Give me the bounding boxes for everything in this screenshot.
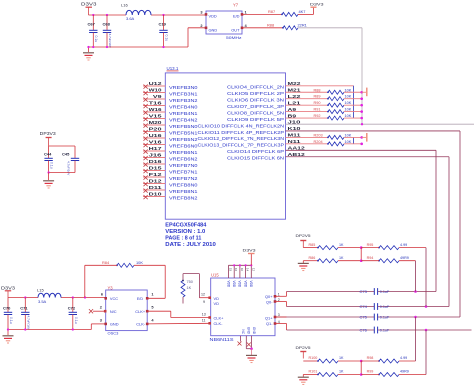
junction dot row M11 <box>360 136 363 139</box>
junction top rail C71 <box>24 296 26 298</box>
power symbol D3V3 top left <box>86 6 93 8</box>
capacitor C68 <box>106 15 108 30</box>
svg-text:AA12: AA12 <box>288 146 306 151</box>
FPGA U13.1 body <box>165 73 285 219</box>
U13 left pin D12 VREFB8N0 <box>143 183 165 185</box>
wire K10 row to C75 <box>286 130 461 132</box>
capacitor C76 0.1uF <box>373 327 375 334</box>
svg-text:Y3: Y3 <box>108 285 114 290</box>
U13 left pin D16 VREFB7N0 <box>143 163 165 165</box>
svg-text:VREFB7N2: VREFB7N2 <box>169 176 198 182</box>
junction bias A lower <box>360 360 363 363</box>
junction bias B lower <box>360 373 363 376</box>
svg-text:A9: A9 <box>288 107 297 112</box>
svg-text:1K: 1K <box>339 256 344 260</box>
U13 left pin D11 VREFB8N1 <box>143 189 165 191</box>
svg-text:GND: GND <box>252 327 256 335</box>
feedback resistor R84 10K <box>147 297 165 299</box>
svg-text:R85: R85 <box>309 243 316 247</box>
resistor R75 750 (vertical pullup) <box>183 273 199 275</box>
svg-text:B9: B9 <box>288 113 297 118</box>
bias row A lower <box>303 360 318 362</box>
inductor L15 <box>38 293 61 297</box>
power bracket group2 <box>362 136 366 138</box>
svg-text:12: 12 <box>201 293 205 297</box>
svg-text:0.1uF: 0.1uF <box>380 316 390 320</box>
svg-text:12: 12 <box>251 268 255 272</box>
U13 left pin M20 VREFB5N0 <box>143 124 165 126</box>
svg-text:3: 3 <box>278 313 280 317</box>
svg-text:VREFB4N1: VREFB4N1 <box>169 111 198 117</box>
wire bias B lower to C76 <box>425 330 427 375</box>
U15 left pin CLK+ <box>208 316 211 319</box>
wire DP3V3 caps bottom <box>49 172 75 174</box>
svg-text:10K: 10K <box>345 133 352 137</box>
svg-text:CLKIO12_DIFFCLK_7N_REFCLK3N: CLKIO12_DIFFCLK_7N_REFCLK3N <box>198 136 285 141</box>
capacitor C45 <box>74 146 76 158</box>
ground top-left <box>88 47 90 52</box>
svg-text:VREFB6N1: VREFB6N1 <box>169 150 198 156</box>
U15 bottom pins <box>240 336 242 342</box>
wire J10 row 50MHz (gray) <box>286 123 474 125</box>
resistor R90 10K on row L21 <box>286 104 329 106</box>
svg-text:D10: D10 <box>149 192 163 197</box>
junction C75 bias tap <box>414 316 417 319</box>
svg-text:CLKIO4_DIFFCLK_2N: CLKIO4_DIFFCLK_2N <box>227 85 284 90</box>
junction U15 gnd <box>250 347 253 350</box>
svg-text:Y7: Y7 <box>233 2 239 7</box>
svg-text:0.1u: 0.1u <box>50 162 54 169</box>
bias bus lower <box>360 361 362 375</box>
svg-text:AB12: AB12 <box>288 152 306 157</box>
svg-text:VDD: VDD <box>243 281 247 288</box>
capacitor C74 0.1uF <box>373 303 375 310</box>
svg-text:D3V3: D3V3 <box>1 286 16 291</box>
svg-text:Q0-: Q0- <box>266 300 273 305</box>
junction bottom rail C71 <box>24 328 26 330</box>
svg-text:1K: 1K <box>339 370 344 374</box>
junction bias B upper <box>360 259 363 262</box>
svg-text:CLKIO14 DIFFCLK 6P: CLKIO14 DIFFCLK 6P <box>227 149 284 154</box>
svg-text:CLKIO8_DIFFCLK_5N: CLKIO8_DIFFCLK_5N <box>227 110 284 115</box>
svg-text:VDD: VDD <box>232 281 236 288</box>
svg-text:VDD: VDD <box>249 281 253 288</box>
wire bias A upper to C74 <box>425 248 427 307</box>
U13 left pin V9 VREFB3N2 <box>143 98 165 100</box>
U13 left pin U16 VREFB5N2 <box>143 137 165 139</box>
svg-text:1K: 1K <box>187 286 192 290</box>
svg-text:3.5A: 3.5A <box>38 299 47 304</box>
wire Y7 pin4 to R88 <box>242 27 283 29</box>
svg-text:10K: 10K <box>345 140 352 144</box>
svg-text:VD: VD <box>214 301 220 306</box>
svg-text:R88: R88 <box>267 23 274 28</box>
svg-text:4.99: 4.99 <box>400 243 407 247</box>
svg-text:R101: R101 <box>309 370 318 374</box>
svg-text:VREFB7N1: VREFB7N1 <box>169 170 198 176</box>
wire Y3 CLK- to U15 <box>147 322 211 325</box>
bias row B lower <box>303 374 318 376</box>
U13 left pin F12 VREFB7N2 <box>143 176 165 178</box>
capacitor C71 <box>24 298 26 313</box>
svg-text:D3V3: D3V3 <box>310 1 325 6</box>
svg-text:49R9: 49R9 <box>400 370 409 374</box>
svg-text:D15: D15 <box>149 166 163 171</box>
svg-text:R203: R203 <box>314 133 323 137</box>
svg-text:OSC3: OSC3 <box>108 331 120 336</box>
svg-text:VREFB5N1: VREFB5N1 <box>169 131 198 137</box>
svg-text:CLKIO5 DIFFCLK 2P: CLKIO5 DIFFCLK 2P <box>227 91 284 96</box>
U13 left pin V15 VREFB4N2 <box>143 118 165 120</box>
svg-text:R91: R91 <box>314 108 321 112</box>
svg-text:10K: 10K <box>345 101 352 105</box>
svg-text:3.6A: 3.6A <box>126 16 135 21</box>
svg-text:C70: C70 <box>3 306 11 311</box>
clock buffer U15 <box>211 278 275 336</box>
svg-text:M11: M11 <box>288 133 302 138</box>
capacitor C67 <box>92 15 94 30</box>
svg-text:DATE : JULY 2010: DATE : JULY 2010 <box>165 242 216 248</box>
svg-text:U13.1: U13.1 <box>167 66 179 71</box>
svg-text:J16: J16 <box>149 153 163 158</box>
junction dot row L21 <box>360 104 363 107</box>
wire DP3V3 caps top <box>49 145 75 147</box>
svg-text:C71: C71 <box>20 306 28 311</box>
junction top rail C72 <box>72 296 74 298</box>
svg-text:VREFB8N0: VREFB8N0 <box>169 183 198 189</box>
U13 left pin V16 VREFB6N0 <box>143 144 165 146</box>
svg-text:P20: P20 <box>149 127 163 132</box>
svg-text:10K: 10K <box>345 108 352 112</box>
resistor R203 10K on row M11 <box>286 136 329 138</box>
svg-text:11: 11 <box>202 318 206 322</box>
power symbol D3V3 bottom left <box>5 290 11 292</box>
svg-text:VREFB7N0: VREFB7N0 <box>169 163 198 169</box>
U13 left pin W10 VREFB3N1 <box>143 92 165 94</box>
svg-text:DP2V5: DP2V5 <box>296 233 312 238</box>
svg-text:CLK+: CLK+ <box>214 315 225 320</box>
junction top rail at C19 <box>162 14 164 16</box>
junction feedback riser <box>84 296 86 298</box>
svg-text:4.7uF/16V: 4.7uF/16V <box>108 34 112 49</box>
wire row C76 <box>287 329 375 331</box>
svg-text:L21: L21 <box>288 100 302 105</box>
svg-text:VREFB3N2: VREFB3N2 <box>169 98 198 104</box>
svg-text:10K: 10K <box>345 114 352 118</box>
svg-text:750: 750 <box>187 280 193 284</box>
U15 VDD top pins <box>228 265 230 278</box>
resistor R89 10K on row L22 <box>286 98 329 100</box>
svg-text:W16: W16 <box>149 107 163 112</box>
wire Y3 CLK+ to U15 <box>147 310 171 312</box>
svg-text:L16: L16 <box>121 3 128 8</box>
svg-text:R92: R92 <box>314 114 321 118</box>
svg-text:VDD: VDD <box>209 13 217 18</box>
svg-text:0.1uF: 0.1uF <box>380 329 390 333</box>
junction bottom rail C19 <box>162 46 164 48</box>
ground bottom left <box>7 330 9 336</box>
svg-text:V9: V9 <box>153 94 162 99</box>
wire bottom rail y=47 <box>89 46 189 48</box>
junction bottom rail C68 <box>106 46 108 48</box>
Y3 pin squares <box>104 297 107 300</box>
svg-text:10K: 10K <box>136 260 143 265</box>
U15 right pin squares <box>274 295 277 298</box>
capacitor C73 0.1uF <box>373 288 375 295</box>
junction bottom rail C67 <box>92 46 94 48</box>
svg-text:EP4CGX50F484: EP4CGX50F484 <box>165 223 206 229</box>
svg-text:C75: C75 <box>360 315 368 320</box>
junction C73 bias tap <box>414 290 417 293</box>
svg-text:4.7uF/16V: 4.7uF/16V <box>27 316 31 331</box>
U15 left pin CLK- <box>208 322 211 325</box>
svg-text:VREFB6N2: VREFB6N2 <box>169 157 198 163</box>
svg-text:14: 14 <box>246 268 250 272</box>
U13 left pin D15 VREFB7N1 <box>143 170 165 172</box>
svg-text:VREFB5N0: VREFB5N0 <box>169 124 198 130</box>
svg-text:CLK+: CLK+ <box>135 309 146 314</box>
svg-text:NB6N11S: NB6N11S <box>210 337 234 342</box>
svg-text:VREFB5N2: VREFB5N2 <box>169 137 198 143</box>
svg-text:C44: C44 <box>44 152 52 157</box>
svg-text:VREFB3N0: VREFB3N0 <box>169 85 198 91</box>
svg-text:M20: M20 <box>149 120 163 125</box>
junction dot row A9 <box>360 110 363 113</box>
svg-text:VDD: VDD <box>226 281 230 288</box>
svg-text:R204: R204 <box>314 140 323 144</box>
svg-text:16: 16 <box>234 268 238 272</box>
svg-text:V16: V16 <box>149 140 163 145</box>
capacitor C72 <box>72 298 74 313</box>
svg-text:R87: R87 <box>268 9 275 14</box>
wire row C74 <box>287 306 375 308</box>
capacitor C75 0.1uF <box>373 314 375 321</box>
svg-text:49R9: 49R9 <box>400 256 409 260</box>
svg-text:C72: C72 <box>68 306 76 311</box>
svg-text:CLK-: CLK- <box>214 321 224 326</box>
ground DP2V5 lower <box>302 375 304 377</box>
svg-text:VREFB8N1: VREFB8N1 <box>169 189 198 195</box>
svg-text:VREFB8N2: VREFB8N2 <box>169 196 198 202</box>
svg-text:VDD: VDD <box>238 281 242 288</box>
svg-text:10K: 10K <box>345 95 352 99</box>
junction dot row B9 <box>360 117 363 120</box>
svg-text:U12: U12 <box>149 81 163 86</box>
U15 left pin VD rows <box>199 297 210 299</box>
U13 left pin H17 VREFB6N1 <box>143 150 165 152</box>
svg-text:D11: D11 <box>149 185 163 190</box>
ground DP2V5 upper <box>302 261 304 263</box>
svg-text:R90: R90 <box>314 101 321 105</box>
U13 left pin J16 VREFB6N2 <box>143 157 165 159</box>
power symbol DP3V3 <box>46 137 52 139</box>
svg-text:D3V3: D3V3 <box>243 247 256 252</box>
junction C76 bias tap <box>425 329 428 332</box>
svg-text:50MHz: 50MHz <box>226 35 242 40</box>
bias row B upper <box>303 260 318 262</box>
wire bias B upper to C73 <box>415 261 417 292</box>
svg-text:R88: R88 <box>314 88 321 92</box>
wire bottom filter bottom rail <box>8 329 91 331</box>
svg-text:CLKIO6 DIFFCLK 3N: CLKIO6 DIFFCLK 3N <box>227 98 284 103</box>
svg-text:E/D: E/D <box>233 13 240 18</box>
svg-text:F12: F12 <box>149 172 163 177</box>
svg-text:CLKIO15 DIFFCLK 6N: CLKIO15 DIFFCLK 6N <box>227 156 284 161</box>
U13 left pin U12 VREFB3N0 <box>143 85 165 87</box>
inductor L16 <box>126 10 151 15</box>
resistor R92 10K on row B9 <box>286 117 329 119</box>
svg-text:C68: C68 <box>103 21 111 26</box>
svg-text:1K: 1K <box>339 356 344 360</box>
svg-text:10: 10 <box>240 268 244 272</box>
svg-text:VREFB4N0: VREFB4N0 <box>169 105 198 111</box>
resistor R91 10K on row A9 <box>286 111 329 113</box>
svg-text:D12: D12 <box>149 179 163 184</box>
svg-text:U16: U16 <box>149 133 163 138</box>
svg-text:M21: M21 <box>288 87 302 92</box>
svg-text:C74: C74 <box>360 304 368 309</box>
svg-text:0.1uF: 0.1uF <box>380 305 390 309</box>
wire Y7 pin1 to R87 <box>242 13 282 15</box>
svg-text:CLKIO13_DIFFCLK_7P_REFCLK3P: CLKIO13_DIFFCLK_7P_REFCLK3P <box>198 143 285 148</box>
junction dot row M21 <box>360 91 363 94</box>
svg-text:L22: L22 <box>288 94 302 99</box>
svg-text:4.99: 4.99 <box>400 356 407 360</box>
svg-text:L15: L15 <box>37 287 44 292</box>
svg-text:R99: R99 <box>367 370 374 374</box>
ground DP3V3 <box>48 173 50 181</box>
svg-text:CLK-: CLK- <box>136 322 146 327</box>
junction dot row L22 <box>360 97 363 100</box>
wire U15 pin3 row into C75 <box>275 316 287 318</box>
svg-text:Q1-: Q1- <box>266 321 273 326</box>
svg-text:K10: K10 <box>288 126 302 131</box>
svg-text:OUT: OUT <box>231 27 240 32</box>
svg-text:GND: GND <box>209 27 218 32</box>
svg-text:0.1u: 0.1u <box>74 317 78 324</box>
svg-text:R98: R98 <box>367 356 374 360</box>
oscillator Y7 <box>206 11 242 34</box>
svg-text:CLKIO7_DIFFCLK_3P: CLKIO7_DIFFCLK_3P <box>227 104 284 109</box>
svg-text:1K: 1K <box>339 243 344 247</box>
svg-text:R84: R84 <box>102 260 110 265</box>
svg-text:4.7uF/16V: 4.7uF/16V <box>67 161 71 176</box>
svg-text:N/C: N/C <box>110 309 117 314</box>
wire to Y3 GND <box>90 324 92 330</box>
ground U15 <box>251 349 253 355</box>
junction top rail at C68 <box>106 14 108 16</box>
bias bus upper <box>360 248 362 261</box>
power symbol D3V3 right <box>311 6 317 8</box>
svg-text:R94: R94 <box>367 256 374 260</box>
wire AA12 row to C73 <box>286 149 437 151</box>
svg-text:NC: NC <box>241 329 245 334</box>
power symbol DP2V5 upper <box>300 240 306 242</box>
svg-text:0.1u: 0.1u <box>94 36 98 43</box>
power bracket group1 <box>362 91 366 93</box>
svg-text:M22: M22 <box>288 81 302 86</box>
junction C74 bias tap <box>425 305 428 308</box>
svg-text:0.1uF: 0.1uF <box>380 290 390 294</box>
junction top rail at C67 <box>92 14 94 16</box>
Y7 pin squares <box>205 13 208 16</box>
svg-text:CLKIO9 DIFFCLK 5P: CLKIO9 DIFFCLK 5P <box>227 117 284 122</box>
svg-text:D16: D16 <box>149 159 163 164</box>
capacitor C19 <box>163 15 165 30</box>
svg-text:D3V3: D3V3 <box>81 2 97 7</box>
svg-text:GND: GND <box>247 327 251 335</box>
svg-text:15: 15 <box>229 268 233 272</box>
svg-text:Q1+: Q1+ <box>265 315 273 320</box>
junction bias A upper <box>360 246 363 249</box>
svg-text:W10: W10 <box>149 88 163 93</box>
wire R87 to power <box>298 13 314 15</box>
svg-text:R89: R89 <box>314 95 321 99</box>
svg-text:V15: V15 <box>149 114 163 119</box>
wire row C75 <box>275 316 374 318</box>
junction DP3V3 bottom <box>47 171 49 173</box>
wire 50MHz net to FPGA J10 (gray) <box>298 27 362 29</box>
oscillator Y3 <box>106 290 148 331</box>
svg-text:VREFB4N2: VREFB4N2 <box>169 118 198 124</box>
svg-text:DP3V3: DP3V3 <box>40 131 57 136</box>
U13 left pin W16 VREFB4N1 <box>143 111 165 113</box>
power symbol D3V3 above U15 <box>248 253 255 255</box>
svg-text:0.1u: 0.1u <box>9 317 13 324</box>
svg-text:4K7: 4K7 <box>299 9 306 14</box>
resistor bus group2 (blue) <box>353 137 355 143</box>
svg-text:C67: C67 <box>88 21 96 26</box>
svg-text:R95: R95 <box>367 243 374 247</box>
svg-text:DP2V5: DP2V5 <box>296 345 312 350</box>
wire top rail y=15 <box>89 14 127 16</box>
svg-text:C45: C45 <box>62 152 70 157</box>
U13 left pin T16 VREFB4N0 <box>143 105 165 107</box>
svg-text:22R1: 22R1 <box>298 23 307 28</box>
svg-text:C73: C73 <box>360 289 368 294</box>
junction dot row N11 <box>360 143 363 146</box>
capacitor C70 <box>7 298 9 313</box>
wire to Y7 GND pin <box>187 28 189 47</box>
wire AB12 row to C74 <box>286 156 450 158</box>
svg-text:13: 13 <box>202 312 206 316</box>
svg-text:0.1u: 0.1u <box>165 35 169 42</box>
wire bias A lower to C75 <box>415 317 417 361</box>
resistor R204 10K on row N11 <box>286 143 329 145</box>
power symbol DP2V5 lower <box>300 351 306 353</box>
wire bottom filter top rail <box>8 297 38 299</box>
svg-text:H17: H17 <box>149 146 163 151</box>
bias row A upper <box>303 247 318 249</box>
wire row C73 <box>287 291 375 293</box>
junction gray net at J10 row <box>361 123 363 125</box>
resistor bus group1 (blue) <box>353 86 355 118</box>
svg-text:VREFB3N1: VREFB3N1 <box>169 92 198 98</box>
svg-text:CLKIO10 DIFFCLK 4N_REFCLK2N: CLKIO10 DIFFCLK 4N_REFCLK2N <box>198 123 285 128</box>
junction bottom rail C72 <box>72 328 74 330</box>
svg-text:VERSION : 1.0: VERSION : 1.0 <box>165 229 205 235</box>
svg-text:R100: R100 <box>309 356 318 360</box>
Y3 NC pin stub with no-connect <box>93 310 106 312</box>
capacitor C44 <box>48 146 50 158</box>
U13 left pin D10 VREFB8N2 <box>143 196 165 198</box>
svg-text:CLKIO11 DIFFCLK 4P_REFCLK2P: CLKIO11 DIFFCLK 4P_REFCLK2P <box>198 130 285 135</box>
svg-text:GND: GND <box>110 322 119 327</box>
svg-text:10K: 10K <box>345 88 352 92</box>
svg-text:C19: C19 <box>159 21 167 26</box>
svg-text:R86: R86 <box>309 256 316 260</box>
U13 left pin P20 VREFB5N1 <box>143 131 165 133</box>
